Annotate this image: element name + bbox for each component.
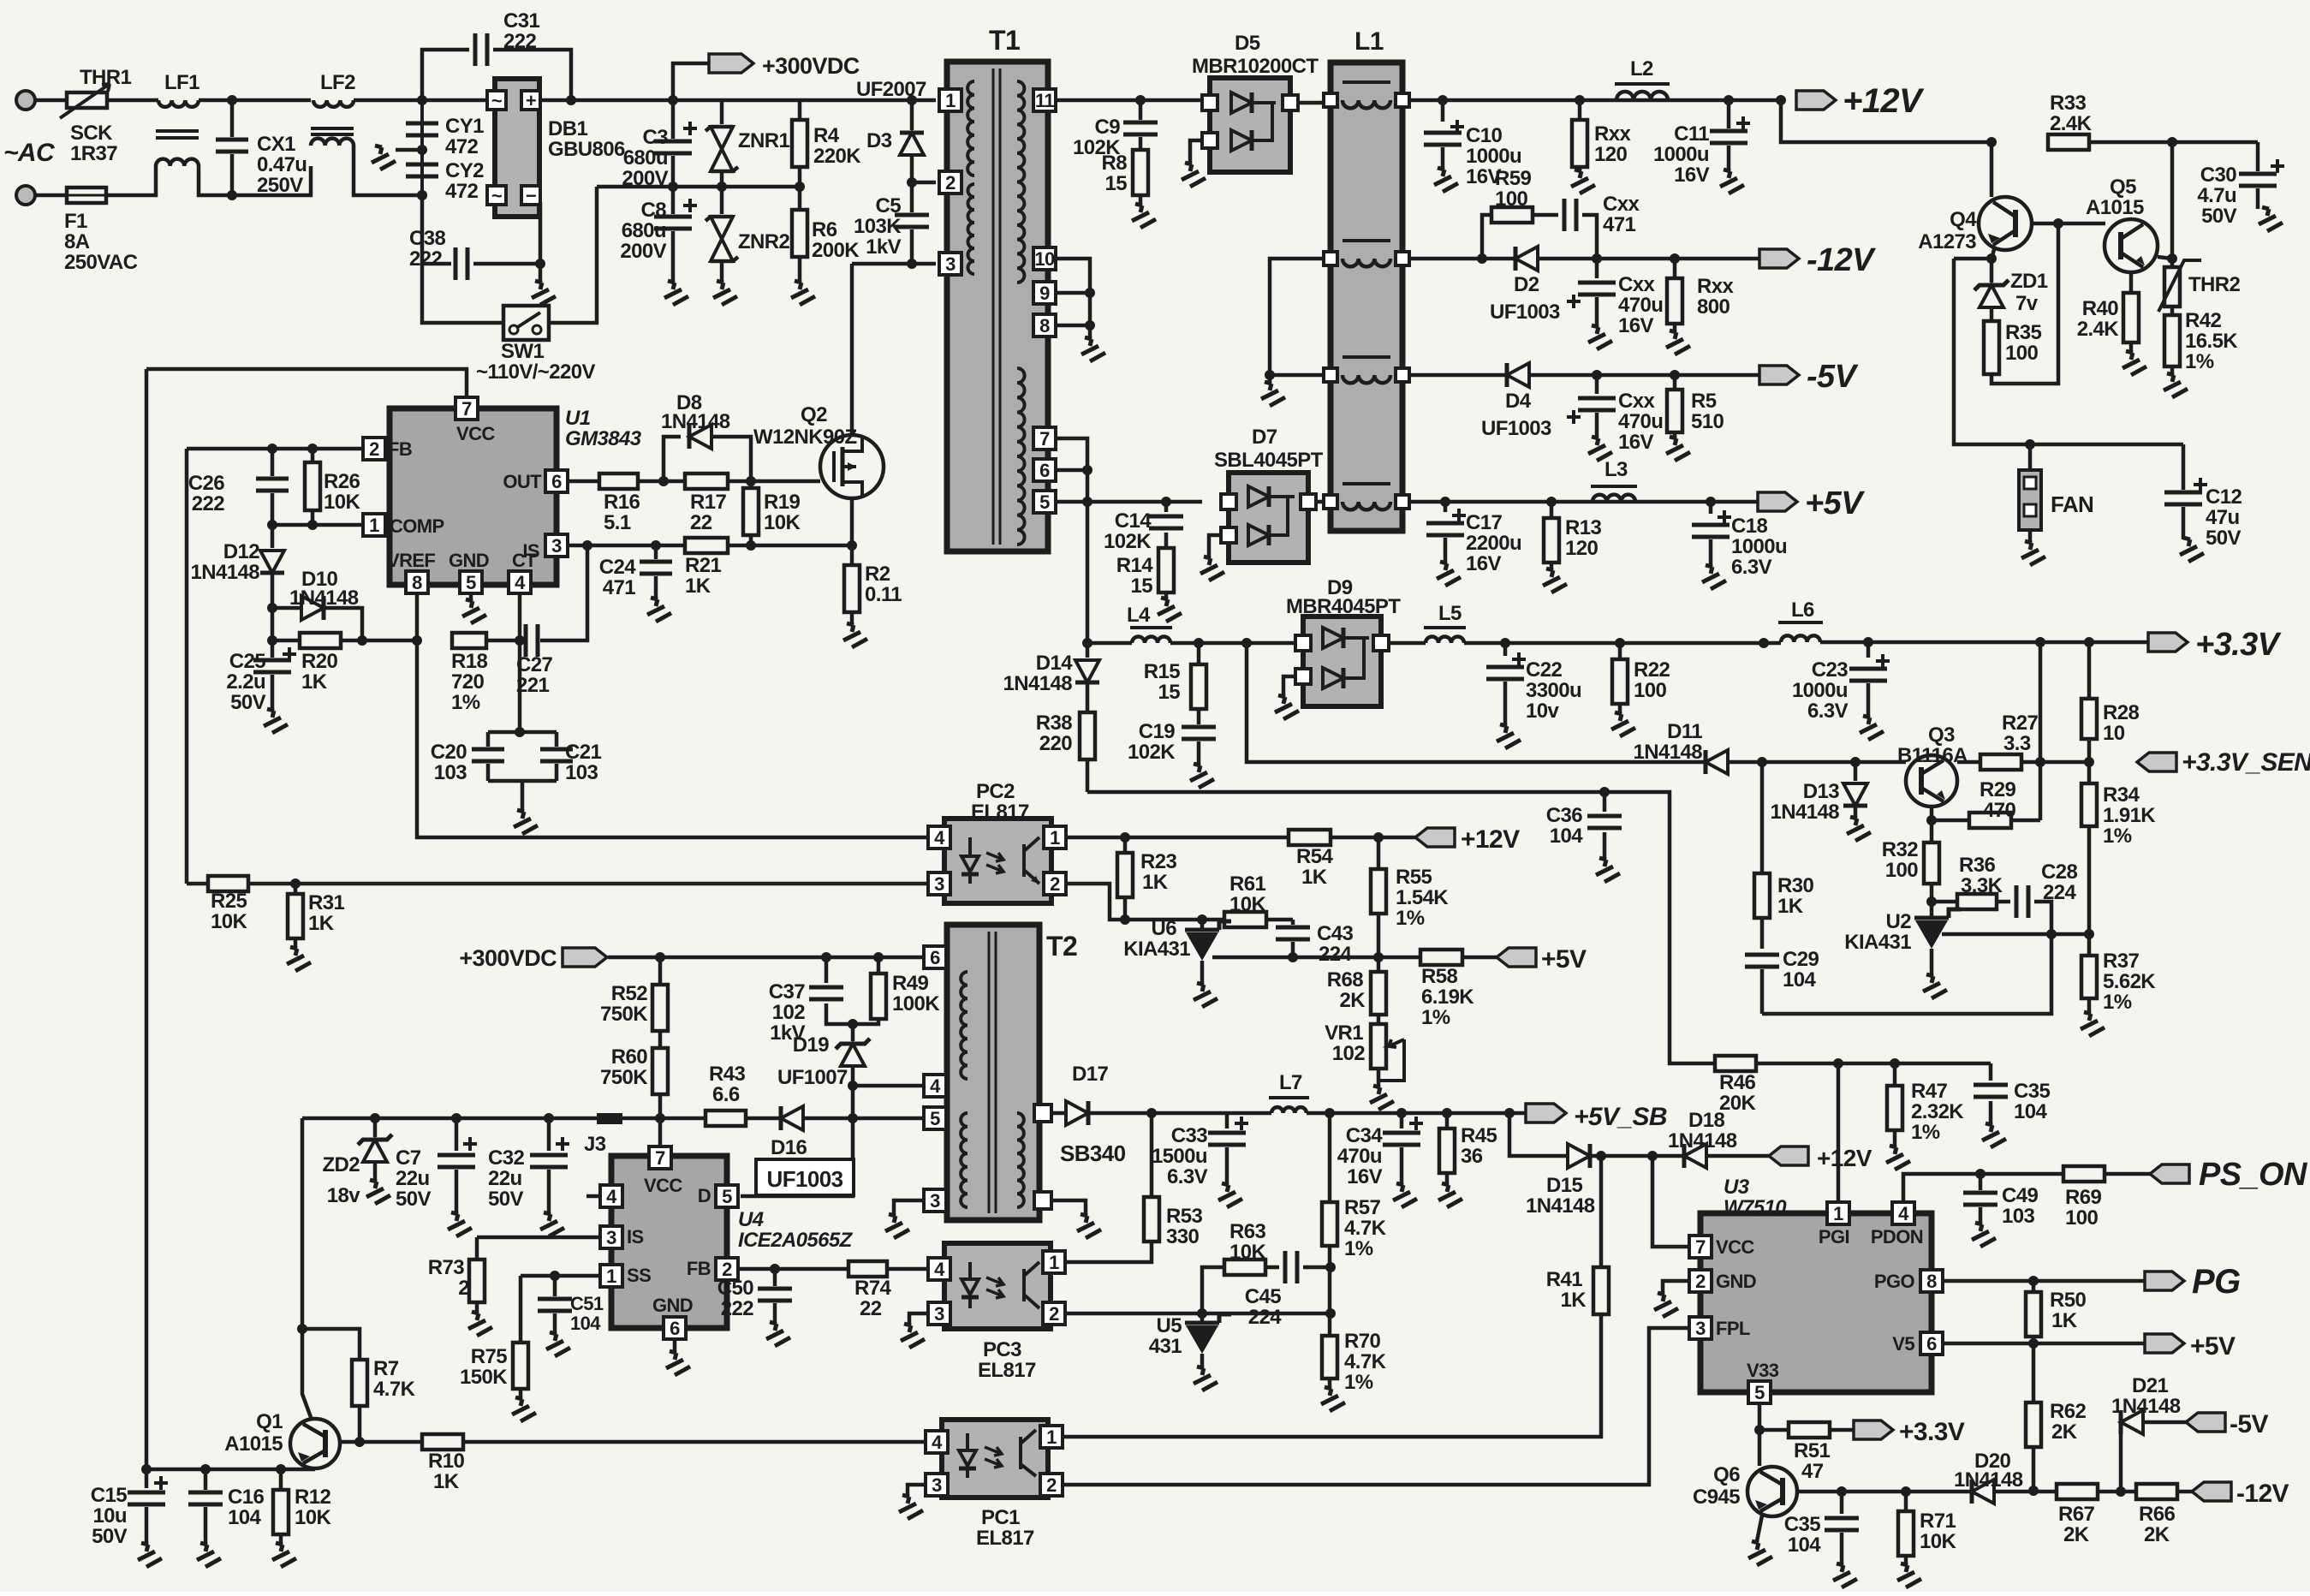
svg-text:7v: 7v [2015,292,2039,315]
U1 pin 5 [460,571,482,593]
svg-text:C3: C3 [643,126,669,149]
capacitor C18 [1692,502,1787,589]
wire Q1 base [341,1440,360,1444]
resistor R54 [1289,830,1415,889]
diode D2 [1490,247,1759,324]
svg-text:GBU806: GBU806 [548,138,625,161]
svg-text:10: 10 [1034,248,1055,270]
svg-text:1%: 1% [2103,991,2132,1014]
svg-text:1%: 1% [1911,1121,1940,1144]
transistor Q6 [1693,1463,1797,1516]
ground D5 [1173,140,1206,187]
diode D10 [267,568,362,640]
svg-text:1%: 1% [1344,1371,1373,1394]
svg-text:16V: 16V [1674,164,1709,187]
svg-text:6: 6 [1039,460,1050,481]
svg-text:R73: R73 [428,1256,464,1279]
U1 pin 1 [363,514,385,536]
wire U4 IS line [477,1236,600,1240]
svg-text:PGI: PGI [1819,1226,1849,1248]
resistor R75 [460,1276,536,1421]
flag +5V supervisor [2145,1332,2236,1361]
svg-text:MBR10200CT: MBR10200CT [1192,55,1319,78]
svg-text:C17: C17 [1466,511,1502,534]
svg-text:1: 1 [1833,1203,1843,1224]
svg-text:104: 104 [570,1313,601,1334]
svg-text:5: 5 [930,1108,940,1129]
ground U1 pin5 [454,593,486,623]
T2 pin 3 [924,1189,946,1212]
svg-text:16.5K: 16.5K [2185,330,2238,353]
svg-text:4.7K: 4.7K [1344,1217,1387,1240]
wire FB to R25 [187,882,208,886]
svg-text:R66: R66 [2139,1503,2175,1526]
svg-text:IS: IS [627,1226,644,1248]
wire VREF to PC2 pin4 [417,640,928,837]
svg-text:1N4148: 1N4148 [1526,1194,1595,1218]
svg-text:C23: C23 [1812,658,1848,682]
wire PC1 pin1 to R41 [1063,1314,1601,1437]
svg-text:222: 222 [721,1297,753,1320]
wire R38 to R46 line [1087,787,1715,1063]
node Q4 emitter [1954,247,1997,264]
resistor R63 [1224,1220,1279,1275]
U3 pin 8 [1920,1270,1943,1292]
svg-text:FB: FB [388,438,412,460]
svg-text:10K: 10K [1920,1530,1956,1553]
svg-text:+5V: +5V [1805,485,1865,521]
U4 pin 1 [600,1265,622,1287]
svg-text:A1273: A1273 [1918,230,1976,253]
svg-text:224: 224 [1319,943,1352,966]
svg-text:GM3843: GM3843 [565,427,642,450]
wire fan supply [1954,259,2183,450]
svg-text:D3: D3 [866,129,892,152]
svg-text:Cxx: Cxx [1618,273,1655,296]
flag +12V output [1776,82,1925,120]
PC1 pin 3 [926,1474,948,1496]
D7 terminals [1221,494,1316,543]
wire U2 feedback bottom [1762,934,2051,1014]
resistor R60 [600,1031,668,1123]
svg-text:100K: 100K [892,992,940,1015]
svg-text:C29: C29 [1783,948,1819,971]
svg-text:1%: 1% [451,691,480,714]
svg-text:6: 6 [551,471,562,492]
wire L4 to D9 [1170,638,1295,648]
wire U1 IS line [568,540,685,551]
svg-text:510: 510 [1691,410,1724,433]
svg-text:EL817: EL817 [976,1527,1034,1550]
PC2 pin 2 [1044,872,1066,895]
svg-text:C25: C25 [229,650,265,673]
wire AC L to THR1 [35,98,67,103]
resistor Rxx 800 [1658,259,1734,354]
resistor R70 [1313,1330,1387,1411]
resistor R67 [2033,1484,2136,1546]
switch SW1 [476,306,595,384]
flag PS_ON [2150,1157,2308,1193]
svg-text:6: 6 [930,947,940,968]
svg-text:15: 15 [1105,172,1128,195]
svg-text:50V: 50V [2201,205,2236,228]
wire Q1 branch to R7 [302,1329,360,1360]
svg-text:C28: C28 [2041,861,2077,884]
capacitor C37 [769,957,858,1045]
svg-text:D17: D17 [1072,1063,1108,1086]
svg-text:150K: 150K [460,1366,508,1389]
AC input terminal L [16,91,35,110]
svg-text:~110V/~220V: ~110V/~220V [476,360,595,384]
svg-text:16V: 16V [1347,1165,1382,1188]
svg-text:R29: R29 [1980,778,2015,801]
resistor R68 [1327,957,1386,1015]
svg-text:R40: R40 [2082,297,2118,320]
wire to U4 pin5 [741,1086,858,1196]
svg-text:SBL4045PT: SBL4045PT [1214,449,1324,472]
resistor R15 [1144,643,1206,724]
resistor R53 [1144,1113,1202,1248]
ground PC3 pin3 [892,1313,928,1348]
svg-text:2: 2 [1695,1271,1706,1292]
capacitor C34 [1337,1113,1423,1207]
resistor R32 [1882,820,1939,907]
svg-text:472: 472 [445,180,478,203]
svg-text:D: D [698,1185,711,1206]
svg-text:~: ~ [491,90,503,111]
svg-text:U2: U2 [1886,910,1912,933]
svg-text:R62: R62 [2050,1400,2086,1423]
svg-text:L6: L6 [1791,598,1814,622]
svg-text:6: 6 [670,1318,680,1339]
svg-text:+300VDC: +300VDC [459,945,557,971]
resistor R47 [1878,1063,1964,1170]
svg-text:R16: R16 [604,491,640,514]
svg-text:1N4148: 1N4148 [1003,672,1073,695]
ground DB1 minus [523,202,556,305]
T2 pin 4 [924,1075,946,1097]
capacitor C12 [2164,444,2242,562]
svg-text:8: 8 [412,572,422,593]
wire Q1 emitter rail [141,1464,315,1474]
U1 pin 6 [545,470,568,492]
wire CT to C20/C21 [518,640,522,732]
zener ZD2 [322,1118,392,1207]
svg-text:R14: R14 [1116,554,1153,577]
svg-text:2.4K: 2.4K [2077,318,2120,341]
svg-text:1000u: 1000u [1466,145,1521,168]
svg-text:C32: C32 [488,1146,524,1170]
wire -5V from L1 [1409,373,1507,378]
svg-text:R23: R23 [1140,850,1176,873]
wire U4 FB line [738,1264,848,1274]
U4 pin 6 [664,1317,686,1339]
diode D15 [1526,1144,1684,1218]
svg-text:104: 104 [1550,825,1583,848]
svg-text:R53: R53 [1166,1205,1202,1228]
svg-text:C30: C30 [2200,164,2236,187]
shunt regulator U5 431 [1149,1313,1231,1391]
svg-text:UF1003: UF1003 [1481,417,1551,440]
U3 pin 2 [1689,1270,1712,1292]
resistor R37 [2072,934,2156,1036]
svg-text:R61: R61 [1229,872,1265,896]
svg-text:18v: 18v [327,1184,360,1207]
svg-text:103: 103 [565,761,598,784]
svg-text:2.32K: 2.32K [1911,1100,1964,1123]
svg-text:200K: 200K [812,239,860,262]
capacitor C33 [1152,1113,1248,1207]
PC1 pin 1 [1040,1426,1063,1448]
svg-text:800: 800 [1697,295,1730,319]
svg-text:4: 4 [934,1259,945,1280]
resistor R18 [451,633,525,714]
resistor R6 [783,187,860,305]
svg-text:R59: R59 [1495,167,1531,190]
U3 pin 3 [1689,1317,1712,1339]
svg-text:COMP: COMP [390,515,444,537]
svg-text:KIA431: KIA431 [1844,931,1911,954]
svg-text:472: 472 [445,135,478,158]
ground D9 [1266,676,1299,719]
wire C5/T1 pin3 node [852,259,936,269]
T1 pin 11 [1033,89,1056,111]
svg-text:MBR4045PT: MBR4045PT [1286,595,1401,618]
svg-text:C12: C12 [2206,485,2242,509]
node CX1 junctions [227,95,237,200]
T2 pin 5 [924,1107,946,1129]
svg-text:6.6: 6.6 [712,1083,740,1106]
capacitor CX1 [216,100,307,197]
svg-text:R27: R27 [2002,712,2038,735]
thermistor THR2 [2158,259,2241,312]
svg-text:1500u: 1500u [1152,1145,1207,1168]
D5 terminals [1202,95,1298,148]
svg-text:104: 104 [1788,1533,1821,1557]
svg-text:R42: R42 [2185,309,2221,332]
wire U4 SS line [521,1271,600,1281]
svg-text:5: 5 [722,1186,732,1207]
resistor R22 [1603,643,1670,736]
svg-text:22u: 22u [396,1167,430,1190]
svg-text:V33: V33 [1747,1360,1779,1381]
ground PC1 pin3 [890,1485,926,1519]
svg-text:15: 15 [1158,681,1181,704]
svg-text:VCC: VCC [456,423,495,444]
transistor Q4 [1918,197,2032,253]
wire SW1 to cap midpoint [549,187,597,323]
transistor Q5 [2086,176,2158,272]
resistor R14 [1116,548,1182,622]
svg-text:VCC: VCC [1716,1236,1754,1258]
svg-text:R55: R55 [1396,866,1432,889]
svg-text:7: 7 [1039,428,1050,450]
svg-text:C27: C27 [516,653,552,676]
wire 300V to T2 pin6 [608,952,928,962]
svg-text:Q2: Q2 [801,403,827,426]
svg-text:-12V: -12V [2236,1480,2289,1508]
svg-text:CY2: CY2 [445,159,484,182]
svg-text:R15: R15 [1144,660,1180,683]
capacitor C26 [188,449,289,525]
wire +12V rail [1409,95,1781,105]
wire U1 pin4 CT down [518,593,522,640]
svg-text:PC2: PC2 [976,780,1015,803]
capacitor C30 [2197,142,2284,231]
U1 pin 7 [455,397,478,420]
wire pin5 node down to 3.3V line [1082,502,1092,648]
capacitor C28 [2016,861,2077,934]
resistor R43 [660,1063,781,1126]
diode D7 SBL4045PT [1214,426,1324,563]
PC3 pin 2 [1043,1302,1065,1325]
svg-text:431: 431 [1149,1335,1182,1358]
capacitor C36 [1546,792,1622,882]
resistor R57 [1322,1113,1387,1336]
svg-text:CT: CT [512,550,537,571]
svg-text:C22: C22 [1526,658,1562,682]
svg-text:R26: R26 [324,470,360,493]
svg-text:PG: PG [2192,1263,2241,1301]
svg-text:THR2: THR2 [2188,273,2241,296]
svg-text:R25: R25 [211,890,247,913]
node ~AC label [3,139,56,167]
svg-text:VREF: VREF [387,550,435,571]
wire 3.3V mid [1464,638,1781,648]
svg-text:100: 100 [1885,859,1918,882]
svg-text:R71: R71 [1920,1510,1956,1533]
svg-text:250VAC: 250VAC [64,251,138,274]
resistor R19 [743,481,801,551]
U3 pin 5 [1748,1381,1771,1403]
wire PC1 pin2 to U3 FPL [1063,1328,1690,1485]
resistor R46 [1715,1056,1991,1115]
L1 terminals [1324,93,1409,509]
svg-text:Q4: Q4 [1950,208,1977,231]
wire U1 FB line [187,444,363,454]
svg-text:5.1: 5.1 [604,511,631,534]
diode D12 [191,525,284,608]
capacitor C16 [188,1469,264,1567]
resistor R7 [352,1357,416,1447]
T2 secondary terminal bottom [1034,1192,1051,1209]
svg-text:U3: U3 [1724,1176,1750,1199]
svg-text:2K: 2K [1340,989,1366,1012]
svg-text:LF2: LF2 [320,71,355,94]
resistor R45 [1430,1113,1497,1207]
svg-text:100: 100 [2065,1206,2098,1230]
svg-text:VR1: VR1 [1325,1021,1363,1045]
svg-text:2: 2 [369,438,379,460]
wire D3 to T1 pin2 [907,177,936,188]
svg-text:6.3V: 6.3V [1807,700,1849,723]
transformer T1 [947,25,1048,551]
T1 pin 5 [1033,491,1056,513]
svg-text:3300u: 3300u [1526,679,1581,702]
resistor R69 [2063,1166,2150,1230]
node +300VDC tap [668,63,709,105]
svg-text:C945: C945 [1693,1486,1740,1509]
svg-text:R21: R21 [685,554,721,577]
svg-text:1R37: 1R37 [70,142,117,165]
svg-text:C7: C7 [396,1146,421,1170]
svg-text:U6: U6 [1152,917,1177,940]
svg-text:1N4148: 1N4148 [1668,1129,1737,1152]
svg-text:4: 4 [606,1186,617,1207]
resistor R12 [264,1469,331,1567]
capacitor C9 [1073,100,1158,159]
svg-text:1N4148: 1N4148 [1634,741,1703,764]
capacitor C35 [1974,1063,2050,1147]
U4 pin 2 [716,1258,738,1280]
svg-text:1%: 1% [2103,825,2132,848]
svg-text:R18: R18 [451,650,487,673]
svg-text:PS_ON: PS_ON [2199,1157,2308,1193]
wire LF1 to CX1/LF2 [199,100,311,195]
wire 3.3V to sense divider [2039,642,2043,762]
svg-text:R10: R10 [428,1450,464,1473]
svg-text:F1: F1 [64,210,87,233]
resistor R73 [428,1237,492,1336]
capacitor C38 [409,190,545,280]
svg-text:250V: 250V [257,174,303,197]
wire L1 winding returns to ground [1253,259,1324,406]
wire Q6 base line [1798,1486,1972,1497]
svg-text:C34: C34 [1346,1124,1383,1147]
svg-text:R74: R74 [854,1277,891,1300]
svg-text:1K: 1K [2051,1309,2078,1332]
resistor R58 [1420,950,1497,1029]
svg-text:102: 102 [1332,1042,1365,1065]
svg-text:KIA431: KIA431 [1123,938,1190,961]
PC3 pin 3 [928,1302,950,1325]
svg-text:Rxx: Rxx [1697,275,1734,298]
svg-text:R69: R69 [2065,1186,2101,1209]
svg-text:1: 1 [1046,1426,1057,1448]
svg-text:222: 222 [409,247,442,271]
U3 pin 1 [1827,1202,1849,1224]
PC1 pin 2 [1040,1474,1063,1496]
svg-text:C16: C16 [228,1486,264,1509]
svg-text:~: ~ [491,185,503,206]
diode D16 [756,1106,928,1195]
svg-text:-12V: -12V [1807,242,1876,278]
svg-text:10K: 10K [764,511,801,534]
svg-text:1000u: 1000u [1653,143,1709,166]
svg-text:750K: 750K [600,1066,648,1089]
capacitor C32 [488,1118,569,1236]
svg-text:120: 120 [1594,143,1627,166]
svg-text:R41: R41 [1546,1268,1582,1291]
svg-text:220: 220 [1039,732,1072,755]
svg-text:D16: D16 [771,1136,807,1159]
ground Q6 emitter [1740,1516,1772,1565]
svg-text:C31: C31 [503,9,539,33]
svg-text:10K: 10K [211,910,247,933]
svg-text:4: 4 [930,1075,941,1097]
wire AC N to F1 [35,194,67,198]
optocoupler PC3 [944,1243,1051,1382]
svg-text:3: 3 [930,1190,940,1212]
svg-text:SW1: SW1 [501,340,544,363]
svg-text:4: 4 [932,1432,943,1453]
svg-text:GND: GND [1716,1271,1756,1292]
svg-text:103: 103 [434,761,467,784]
optocoupler PC2 [944,780,1051,903]
resistor R21 [685,538,857,598]
capacitor C24 [599,545,672,622]
svg-text:D13: D13 [1803,780,1839,803]
